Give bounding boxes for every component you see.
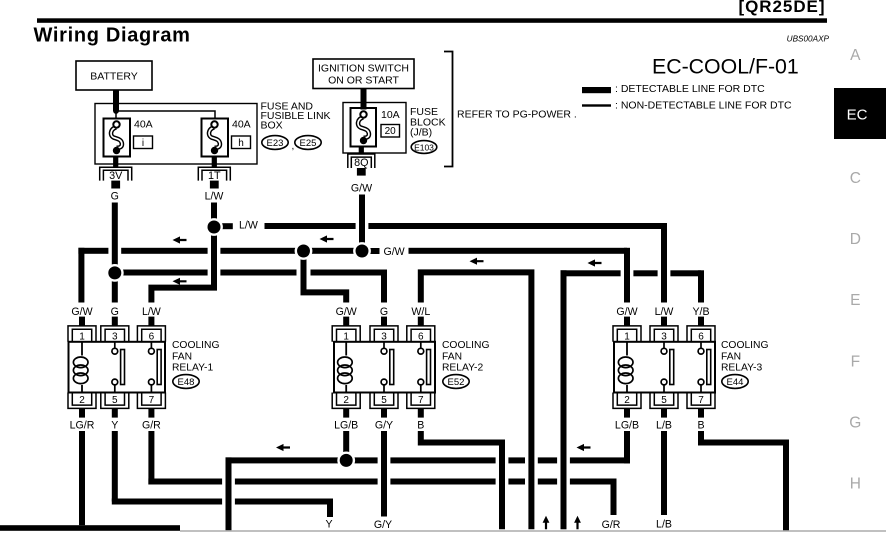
svg-text:E25: E25 xyxy=(300,138,317,149)
svg-text:Y: Y xyxy=(111,420,118,432)
svg-text:L/B: L/B xyxy=(656,420,672,432)
svg-text:BATTERY: BATTERY xyxy=(90,71,137,83)
svg-text:FAN: FAN xyxy=(172,351,192,362)
svg-text:A: A xyxy=(850,47,861,64)
svg-text:COOLING: COOLING xyxy=(442,340,490,351)
svg-text:LG/B: LG/B xyxy=(615,420,639,432)
svg-text:Y: Y xyxy=(325,519,332,531)
svg-text:L/B: L/B xyxy=(656,519,672,531)
svg-text:L/W: L/W xyxy=(239,220,258,232)
svg-text:LG/R: LG/R xyxy=(70,420,95,432)
svg-text:Wiring Diagram: Wiring Diagram xyxy=(34,25,191,47)
svg-text:RELAY-3: RELAY-3 xyxy=(721,363,762,374)
svg-text:EC-COOL/F-01: EC-COOL/F-01 xyxy=(652,55,799,79)
svg-text:B: B xyxy=(697,420,704,432)
svg-text:(J/B): (J/B) xyxy=(410,127,432,139)
svg-text:EC: EC xyxy=(847,107,868,124)
svg-text:F: F xyxy=(851,353,860,370)
svg-text:G/W: G/W xyxy=(351,183,372,195)
svg-text:5: 5 xyxy=(381,395,387,406)
svg-text:RELAY-1: RELAY-1 xyxy=(172,363,213,374)
svg-text:G/W: G/W xyxy=(71,306,92,318)
svg-text:COOLING: COOLING xyxy=(172,340,220,351)
svg-text:W/L: W/L xyxy=(411,306,430,318)
svg-text:3: 3 xyxy=(112,331,118,342)
svg-text:E103: E103 xyxy=(414,142,434,152)
svg-text:6: 6 xyxy=(698,331,704,342)
svg-text:G/W: G/W xyxy=(336,306,357,318)
svg-text:7: 7 xyxy=(418,395,424,406)
svg-text:,: , xyxy=(292,141,295,152)
svg-text:i: i xyxy=(142,138,144,149)
svg-text:7: 7 xyxy=(149,395,155,406)
svg-text:3: 3 xyxy=(381,331,387,342)
svg-text:E23: E23 xyxy=(267,138,284,149)
svg-text:20: 20 xyxy=(385,126,397,137)
svg-text:FAN: FAN xyxy=(721,351,741,362)
svg-text:LG/B: LG/B xyxy=(334,420,358,432)
svg-text:G/W: G/W xyxy=(616,306,637,318)
svg-text:ON OR START: ON OR START xyxy=(328,75,399,87)
svg-text:L/W: L/W xyxy=(655,306,674,318)
svg-text:3V: 3V xyxy=(109,170,123,182)
svg-text:E48: E48 xyxy=(178,377,195,388)
svg-text:L/W: L/W xyxy=(142,306,161,318)
svg-text:G: G xyxy=(849,414,861,431)
svg-text:IGNITION SWITCH: IGNITION SWITCH xyxy=(318,63,409,75)
svg-text:10A: 10A xyxy=(381,109,400,121)
svg-text:L/W: L/W xyxy=(205,191,224,203)
svg-text:: DETECTABLE LINE FOR DTC: : DETECTABLE LINE FOR DTC xyxy=(615,83,765,95)
svg-text:C: C xyxy=(850,170,861,187)
svg-text:G/R: G/R xyxy=(602,519,621,531)
svg-text:h: h xyxy=(238,138,244,149)
svg-text:G/W: G/W xyxy=(384,246,405,258)
svg-text:H: H xyxy=(850,475,861,492)
svg-text:E44: E44 xyxy=(727,377,744,388)
svg-text:40A: 40A xyxy=(232,119,251,131)
svg-text:40A: 40A xyxy=(134,119,153,131)
svg-text:8Q: 8Q xyxy=(354,157,368,169)
svg-text:B: B xyxy=(417,420,424,432)
svg-text:2: 2 xyxy=(79,395,85,406)
svg-text:G/R: G/R xyxy=(142,420,161,432)
svg-text:E: E xyxy=(850,292,860,309)
svg-text:Y/B: Y/B xyxy=(692,306,709,318)
svg-text:1: 1 xyxy=(624,331,630,342)
svg-text:REFER TO PG-POWER .: REFER TO PG-POWER . xyxy=(457,109,577,121)
svg-text:G: G xyxy=(111,191,119,203)
svg-text:1: 1 xyxy=(79,331,85,342)
svg-text:BOX: BOX xyxy=(261,120,283,132)
svg-text:3: 3 xyxy=(661,331,667,342)
svg-text:COOLING: COOLING xyxy=(721,340,769,351)
svg-text:1: 1 xyxy=(343,331,349,342)
svg-text:6: 6 xyxy=(418,331,424,342)
svg-text:E52: E52 xyxy=(448,377,465,388)
svg-text:2: 2 xyxy=(343,395,349,406)
svg-text:: NON-DETECTABLE LINE FOR DTC: : NON-DETECTABLE LINE FOR DTC xyxy=(615,100,792,112)
svg-text:G: G xyxy=(380,306,388,318)
svg-text:2: 2 xyxy=(624,395,630,406)
svg-text:7: 7 xyxy=(698,395,704,406)
svg-text:5: 5 xyxy=(112,395,118,406)
svg-text:G/Y: G/Y xyxy=(374,519,392,531)
svg-text:RELAY-2: RELAY-2 xyxy=(442,363,483,374)
svg-text:5: 5 xyxy=(661,395,667,406)
svg-text:UBS00AXP: UBS00AXP xyxy=(787,35,830,44)
svg-text:[QR25DE]: [QR25DE] xyxy=(739,0,826,16)
svg-text:1T: 1T xyxy=(208,170,221,182)
svg-text:G: G xyxy=(111,306,119,318)
svg-text:G/Y: G/Y xyxy=(375,420,393,432)
svg-text:D: D xyxy=(850,231,861,248)
svg-text:FAN: FAN xyxy=(442,351,462,362)
svg-text:6: 6 xyxy=(149,331,155,342)
